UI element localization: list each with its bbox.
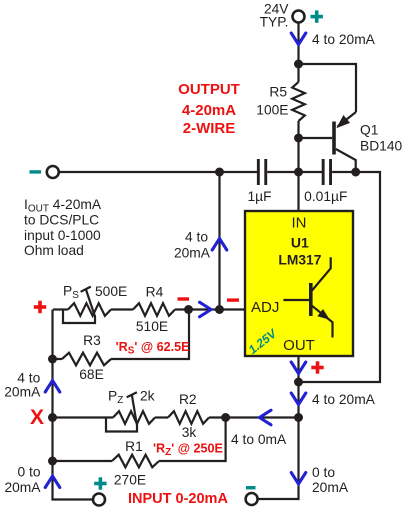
svg-text:0.01µF: 0.01µF <box>304 189 347 204</box>
svg-text:4-20mA: 4-20mA <box>182 102 236 119</box>
svg-text:R5: R5 <box>269 85 287 100</box>
svg-text:510E: 510E <box>136 319 168 334</box>
svg-text:2-WIRE: 2-WIRE <box>183 120 236 137</box>
svg-text:Q1: Q1 <box>360 123 378 138</box>
svg-text:20mA: 20mA <box>4 384 41 399</box>
svg-text:R4: R4 <box>146 284 164 299</box>
svg-text:ADJ: ADJ <box>251 299 279 316</box>
svg-text:R3: R3 <box>83 333 101 348</box>
svg-text:OUTPUT: OUTPUT <box>178 81 240 98</box>
svg-text:0 to: 0 to <box>17 464 40 479</box>
svg-text:Ohm load: Ohm load <box>24 243 84 258</box>
svg-text:4 to: 4 to <box>185 229 208 244</box>
svg-text:R1: R1 <box>125 439 143 454</box>
svg-text:2k: 2k <box>140 388 155 403</box>
svg-text:BD140: BD140 <box>360 138 403 153</box>
svg-text:1µF: 1µF <box>247 189 271 204</box>
svg-text:4 to 20mA: 4 to 20mA <box>312 32 376 47</box>
svg-text:U1: U1 <box>291 234 309 250</box>
svg-text:3k: 3k <box>182 425 197 440</box>
svg-text:X: X <box>30 406 44 429</box>
svg-text:input 0-1000: input 0-1000 <box>24 228 101 243</box>
svg-text:TYP.: TYP. <box>260 14 289 29</box>
svg-text:4 to: 4 to <box>17 370 40 385</box>
svg-text:to DCS/PLC: to DCS/PLC <box>24 213 99 228</box>
svg-text:0 to: 0 to <box>312 465 335 480</box>
svg-text:20mA: 20mA <box>4 480 41 495</box>
svg-text:LM317: LM317 <box>278 252 321 267</box>
svg-text:OUT: OUT <box>283 337 315 354</box>
svg-text:20mA: 20mA <box>312 480 349 495</box>
svg-text:270E: 270E <box>114 472 146 487</box>
svg-text:20mA: 20mA <box>174 246 211 261</box>
svg-text:IN: IN <box>292 215 307 232</box>
svg-text:R2: R2 <box>179 392 197 407</box>
svg-text:68E: 68E <box>79 367 104 382</box>
svg-text:500E: 500E <box>95 284 127 299</box>
svg-text:100E: 100E <box>256 102 288 117</box>
svg-text:4 to 0mA: 4 to 0mA <box>231 432 287 447</box>
svg-text:INPUT 0-20mA: INPUT 0-20mA <box>128 491 228 507</box>
svg-text:4 to 20mA: 4 to 20mA <box>312 392 376 407</box>
